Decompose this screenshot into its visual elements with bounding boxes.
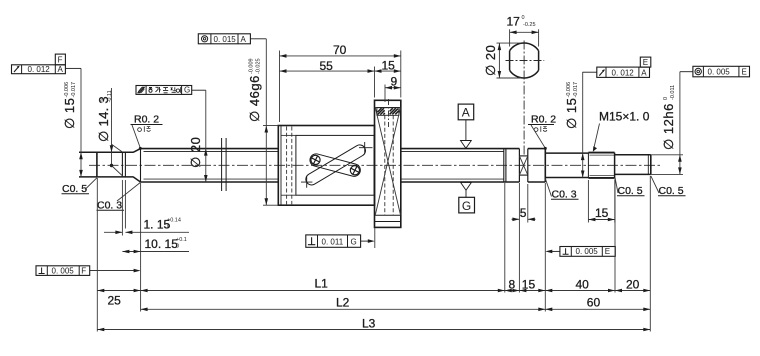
svg-text:+0.14: +0.14	[167, 218, 181, 224]
tube A end crosshair right	[359, 142, 373, 153]
flange cross diagonal 2	[375, 108, 400, 215]
dim Ø14.3 center dot	[110, 164, 113, 167]
wrench flat zone left wall	[518, 149, 520, 182]
svg-text:∅ 20: ∅ 20	[188, 137, 203, 168]
svg-text:L1: L1	[315, 276, 329, 290]
flange bottom inner line 2	[375, 221, 401, 223]
section view circle with flats	[510, 43, 539, 78]
svg-text:A: A	[641, 68, 647, 77]
Ø12 bottom	[615, 173, 651, 175]
screw root line bottom (right span)	[401, 178, 504, 180]
svg-text:0. 005: 0. 005	[52, 267, 75, 276]
svg-text:-0.017: -0.017	[71, 82, 77, 98]
svg-text:∅ 12h6: ∅ 12h6	[661, 103, 676, 150]
svg-text:15: 15	[382, 58, 396, 72]
svg-text:20: 20	[626, 277, 640, 291]
flange bottom inner line 1	[375, 214, 401, 216]
svg-text:0. 015: 0. 015	[214, 35, 237, 44]
left journal bottom edge	[79, 176, 133, 178]
return tube B (short stadium)	[309, 152, 362, 177]
svg-text:C0. 5: C0. 5	[62, 183, 87, 195]
svg-text:-0.017: -0.017	[573, 82, 579, 98]
dim Ø12h6 line	[679, 72, 681, 175]
FCF slope table G (하기표같이)	[136, 86, 206, 95]
svg-text:C0. 3: C0. 3	[97, 200, 122, 212]
left relief groove	[121, 152, 123, 177]
svg-text:9: 9	[391, 75, 398, 89]
svg-text:-0.009: -0.009	[249, 58, 255, 74]
svg-text:0. 012: 0. 012	[612, 68, 635, 77]
svg-text:A: A	[241, 35, 247, 44]
right journal Ø15 bottom	[545, 177, 588, 179]
screw shaft OD bottom (right span)	[401, 181, 520, 183]
M15 root bottom	[590, 174, 615, 176]
flange cross diagonal 1	[375, 108, 400, 215]
bottom extension lines	[96, 178, 98, 332]
FCF runout 0.012 A with F datum (left)	[12, 54, 82, 74]
wrench flat cross 2	[519, 156, 527, 175]
nut inner recess rectangle	[296, 135, 374, 195]
svg-text:17: 17	[507, 15, 521, 29]
dim Ø20 of section: extension lines	[497, 42, 522, 44]
svg-text:0. 011: 0. 011	[322, 237, 344, 246]
svg-text:R0. 2: R0. 2	[531, 114, 556, 126]
flange top inner line	[375, 107, 401, 109]
svg-text:G: G	[184, 86, 190, 95]
right shoulder step	[544, 149, 546, 182]
svg-text:F: F	[58, 55, 63, 64]
svg-text:A: A	[58, 65, 64, 74]
dim Ø12h6: extension lines	[651, 154, 683, 156]
svg-text:G: G	[462, 199, 471, 213]
M15 thread bottom	[588, 177, 614, 179]
right journal Ø15 top	[545, 152, 588, 154]
svg-text:0: 0	[167, 224, 170, 230]
svg-text:-0.11: -0.11	[107, 90, 113, 102]
svg-text:-0.025: -0.025	[256, 58, 262, 74]
M15 thread top	[588, 152, 614, 154]
svg-text:R0. 2: R0. 2	[134, 114, 159, 126]
dim 70/55/15/9 extension lines	[279, 51, 281, 123]
nut hidden line 2	[291, 127, 293, 205]
FCF perpendicularity 0.005 E (bottom right)	[545, 247, 615, 257]
svg-text:L2: L2	[336, 296, 350, 310]
svg-text:-0.006: -0.006	[566, 82, 572, 98]
shaft OD over flat zone top	[528, 148, 546, 150]
svg-text:C0. 3: C0. 3	[552, 189, 577, 201]
svg-text:E: E	[643, 58, 648, 67]
wrench flat cross 1	[519, 156, 527, 175]
dim 15 line	[588, 219, 614, 221]
FCF perpendicularity 0.005 F (bottom left)	[36, 266, 141, 276]
nut hidden line 1	[286, 127, 288, 205]
tube A end crosshair left	[301, 176, 312, 187]
dim Ø46g6: extension lines	[263, 125, 278, 127]
screw shaft OD top (right span)	[401, 148, 520, 150]
FCF concentricity 0.005 E (top right)	[680, 66, 750, 77]
right end chamfer line	[647, 155, 649, 175]
svg-text:E: E	[605, 247, 610, 256]
svg-text:25: 25	[108, 294, 122, 308]
bolt hole hatch left block	[378, 108, 385, 115]
svg-text:0: 0	[176, 243, 179, 249]
svg-text:∅ 46g6: ∅ 46g6	[247, 75, 262, 122]
svg-text:0. 005: 0. 005	[576, 247, 599, 256]
left end face	[96, 152, 98, 177]
svg-text:0. 012: 0. 012	[28, 65, 51, 74]
svg-text:8: 8	[509, 277, 516, 291]
dim 5 (flat width): extension stub	[527, 184, 529, 223]
svg-text:∅ 15: ∅ 15	[62, 98, 77, 129]
tube screw 2	[350, 166, 359, 175]
flange bolt hole section band	[377, 108, 399, 116]
flange face extension line down	[374, 228, 376, 248]
thread lead-in cone bottom	[133, 177, 140, 182]
thread start line	[587, 153, 589, 178]
svg-text:0: 0	[663, 97, 669, 100]
dim 70 line	[280, 55, 401, 57]
screw root line top (left span)	[144, 151, 279, 153]
wrench flat zone right wall	[527, 149, 529, 182]
dim Ø15 right line	[582, 72, 584, 178]
dim 17 line	[510, 31, 539, 33]
recess top line to face	[281, 134, 296, 136]
svg-text:70: 70	[333, 43, 347, 57]
svg-text:40: 40	[576, 277, 590, 291]
svg-text:10. 15: 10. 15	[145, 237, 179, 251]
svg-text:M15×1. 0: M15×1. 0	[599, 110, 650, 124]
svg-text:G: G	[351, 237, 357, 246]
bolt hole hatch right block	[390, 108, 399, 114]
dim 10.15 line	[122, 251, 189, 253]
screw shaft OD bottom (left span)	[141, 181, 279, 183]
svg-text:15: 15	[595, 206, 609, 220]
svg-text:0. 005: 0. 005	[708, 68, 731, 77]
dim Ø20 shaft leader	[205, 90, 207, 182]
dim 9 line	[385, 87, 401, 89]
svg-text:-0.25: -0.25	[523, 22, 536, 28]
datum A symbol	[458, 104, 474, 148]
dim row 2: L2 / 60	[141, 308, 651, 310]
Korean text 하기표같이 (small glyph strokes)	[149, 87, 181, 93]
svg-text:60: 60	[587, 295, 601, 309]
svg-text:A: A	[462, 106, 470, 120]
svg-text:-0.011: -0.011	[670, 85, 676, 100]
dim row 3: L3	[97, 329, 650, 331]
left journal top edge	[79, 151, 133, 153]
FCF concentricity 0.015 A (top)	[198, 34, 266, 44]
wrench flat bottom line	[519, 174, 527, 176]
dim Ø15 left: dimension line	[80, 68, 82, 176]
thread lead-in cone top	[133, 149, 140, 153]
screw shaft OD top (left span)	[141, 148, 279, 150]
right end face	[650, 155, 652, 175]
dim Ø46g6 line	[265, 39, 267, 205]
FCF perpendicularity 0.011 G	[306, 235, 375, 247]
dim 55 / 15 line	[280, 70, 401, 72]
wrench flat top line	[519, 155, 527, 157]
svg-text:15: 15	[522, 277, 536, 291]
dim 15 (thread length): extension lines	[587, 180, 589, 223]
svg-text:C0. 5: C0. 5	[618, 185, 643, 197]
dim 1.15: extension stubs	[121, 180, 123, 236]
dim 17 extension lines	[509, 29, 511, 46]
dim Ø20 section line	[498, 43, 500, 78]
FCF runout 0.012 A with E datum (right)	[583, 57, 651, 77]
main centerline	[89, 164, 661, 166]
dim row 1: 25 / L1 / 8 / 15 / 40 / 20	[97, 290, 650, 292]
tube screw 1	[311, 155, 320, 164]
recess bottom line to face	[281, 194, 296, 196]
svg-text:5: 5	[520, 206, 527, 220]
dim 1.15 line	[104, 231, 122, 233]
svg-text:0: 0	[522, 15, 525, 21]
step M15 to Ø12	[614, 153, 616, 178]
svg-text:L3: L3	[362, 316, 376, 330]
screw root line bottom (left span)	[144, 178, 279, 180]
dim 5 line	[512, 218, 520, 220]
svg-text:-0.006: -0.006	[64, 82, 70, 98]
nut left face chamfer line	[280, 126, 282, 206]
shaft break line 1	[221, 138, 223, 191]
shaft break line 2	[225, 138, 227, 191]
thread end line 2	[505, 149, 507, 182]
svg-text:F: F	[81, 267, 86, 276]
svg-text:E: E	[742, 68, 747, 77]
return tube A (long stadium)	[304, 143, 368, 187]
dim Ø14.3 leader line	[111, 88, 113, 166]
datum G symbol	[459, 182, 475, 213]
flange hidden hole line 2	[392, 115, 394, 215]
svg-text:+0.1: +0.1	[176, 237, 187, 243]
Ø12 top	[615, 154, 651, 156]
M15 root top	[590, 154, 615, 156]
flange outline	[375, 100, 401, 227]
svg-text:∅ 20: ∅ 20	[483, 45, 498, 76]
ball nut body outline	[278, 126, 374, 206]
screw root line top (right span)	[401, 151, 504, 153]
shaft OD over flat zone bottom	[528, 181, 546, 183]
svg-text:C0. 5: C0. 5	[659, 185, 684, 197]
bolt axis centerline	[388, 99, 390, 127]
svg-text:0: 0	[100, 99, 106, 102]
section view vertical centerline down to shaft	[523, 41, 525, 157]
svg-text:55: 55	[320, 59, 334, 73]
dim Ø14.3 pointer diagonals	[112, 144, 123, 152]
flange hidden hole line 1	[384, 115, 386, 215]
svg-text:∅ 15: ∅ 15	[564, 98, 579, 129]
thread end line 1	[503, 149, 505, 182]
section view horizontal centerline	[506, 60, 545, 62]
shoulder line at thread start	[140, 149, 142, 182]
